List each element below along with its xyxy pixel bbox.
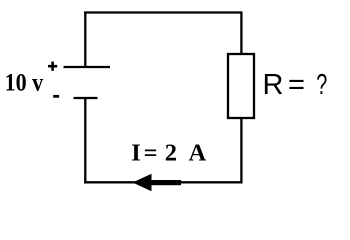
current direction arrow I bbox=[133, 174, 182, 191]
wire left lower (battery - plate down to bottom wire) bbox=[84, 98, 86, 183]
battery - terminal sign bbox=[53, 95, 59, 98]
svg-text:10 v: 10 v bbox=[5, 70, 44, 97]
resistor R1 body bbox=[228, 54, 254, 118]
battery V1 positive plate bbox=[64, 66, 111, 68]
svg-text:?: ? bbox=[316, 69, 327, 101]
wire top (node between battery + and resistor top) bbox=[84, 11, 243, 13]
battery + terminal sign bbox=[48, 62, 57, 71]
wire right upper (top wire down to resistor) bbox=[240, 12, 242, 55]
wire right lower (resistor down to bottom wire) bbox=[240, 118, 242, 183]
wire bottom (resistor bottom back to battery -) bbox=[84, 181, 243, 183]
wire left upper (top wire down to battery + plate) bbox=[84, 12, 86, 67]
battery V1 negative plate bbox=[74, 97, 98, 99]
